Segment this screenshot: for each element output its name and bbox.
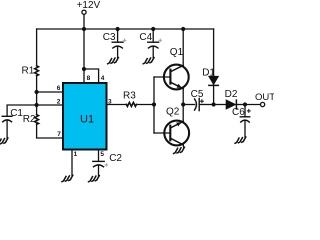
wire left bus R1 to R2: [36, 76, 38, 115]
+12V supply terminal: [82, 10, 86, 29]
plus mark C5: [200, 100, 203, 103]
capacitor C3: [112, 29, 123, 58]
ground C2: [89, 176, 100, 182]
wire base bus: [153, 77, 155, 133]
capacitor C5: [195, 98, 214, 110]
node emitters/C5: [181, 102, 185, 106]
node pin2/C1/bus: [35, 103, 39, 107]
faint plus mark C2: [105, 164, 108, 167]
wire pin2: [37, 104, 63, 106]
wire to OUT terminal: [245, 104, 260, 106]
transistor Q2: [154, 121, 189, 146]
svg-text:C3: C3: [103, 32, 116, 43]
svg-text:C5: C5: [191, 89, 204, 100]
wire pin 1 to ground: [71, 150, 73, 176]
svg-text:6: 6: [57, 85, 61, 92]
wire R3 to base node: [136, 104, 154, 106]
node C4/rail: [151, 27, 155, 31]
svg-text:OUT: OUT: [255, 92, 274, 103]
resistor R1: [35, 66, 39, 76]
svg-text:4: 4: [101, 75, 105, 82]
node Q1 collector/rail: [181, 27, 185, 31]
ground pin1: [62, 175, 73, 181]
svg-text:1: 1: [74, 151, 78, 158]
wire node to C5: [183, 104, 194, 106]
svg-text:C4: C4: [139, 32, 152, 43]
diode D1: [209, 76, 218, 104]
capacitor C4: [148, 29, 159, 58]
ground C6: [235, 137, 246, 143]
wire Q1 collector to rail: [182, 29, 184, 66]
capacitor C2: [93, 150, 104, 176]
svg-text:U1: U1: [80, 114, 94, 126]
wire D1 node to D2: [214, 104, 227, 106]
node pin8/pin4: [82, 67, 86, 71]
svg-text:Q1: Q1: [170, 47, 184, 58]
node pin6/bus: [35, 90, 39, 94]
wire pin 3 to R3: [107, 104, 127, 106]
ground C3: [108, 58, 119, 64]
wire Q2 collector up to node: [182, 105, 184, 122]
faint plus mark C3: [123, 39, 126, 42]
ground C4: [143, 58, 154, 64]
svg-text:D2: D2: [225, 89, 238, 100]
svg-text:R1: R1: [22, 66, 35, 77]
node C3/rail: [116, 27, 120, 31]
plus mark C6: [247, 109, 250, 112]
node supply/rail: [82, 27, 86, 31]
op-amp/IC U1 box: [63, 83, 107, 150]
svg-text:R2: R2: [23, 114, 36, 125]
capacitor C6: [240, 105, 249, 138]
svg-text:5: 5: [100, 151, 104, 158]
diode D2: [226, 100, 245, 109]
svg-text:C2: C2: [109, 153, 122, 164]
svg-text:2: 2: [57, 98, 61, 105]
node R3/bases: [152, 102, 156, 106]
capacitor C1: [2, 105, 36, 138]
svg-text:C1: C1: [10, 108, 23, 119]
OUT terminal: [261, 102, 265, 106]
resistor R3: [126, 102, 136, 106]
ground Q2: [174, 147, 185, 153]
faint plus mark C4: [159, 39, 162, 42]
svg-text:C6: C6: [232, 107, 245, 118]
wire rail corner down to D1: [213, 29, 215, 76]
wire pin6: [37, 91, 63, 93]
resistor R2: [35, 115, 39, 125]
svg-text:Q2: Q2: [166, 106, 180, 117]
wire left bus from rail to R1: [36, 29, 38, 66]
wire left bus R2 to pin7 corner: [37, 124, 63, 138]
node D2/C6/OUT: [243, 102, 247, 106]
svg-text:+12V: +12V: [77, 0, 101, 11]
junction node dots: [35, 27, 248, 107]
svg-text:8: 8: [87, 75, 91, 82]
wire Q1 emitter down to node: [182, 88, 184, 104]
wire Vcc to pins 8 and 4: [84, 29, 99, 83]
wire top supply rail: [37, 28, 214, 30]
wire Q2 emitter stub: [182, 145, 184, 147]
svg-text:7: 7: [57, 131, 61, 138]
svg-text:D1: D1: [202, 67, 215, 78]
ground C1: [0, 138, 8, 144]
transistor Q1: [154, 65, 189, 90]
node D1/C5/D2: [212, 102, 216, 106]
svg-text:R3: R3: [123, 90, 136, 101]
